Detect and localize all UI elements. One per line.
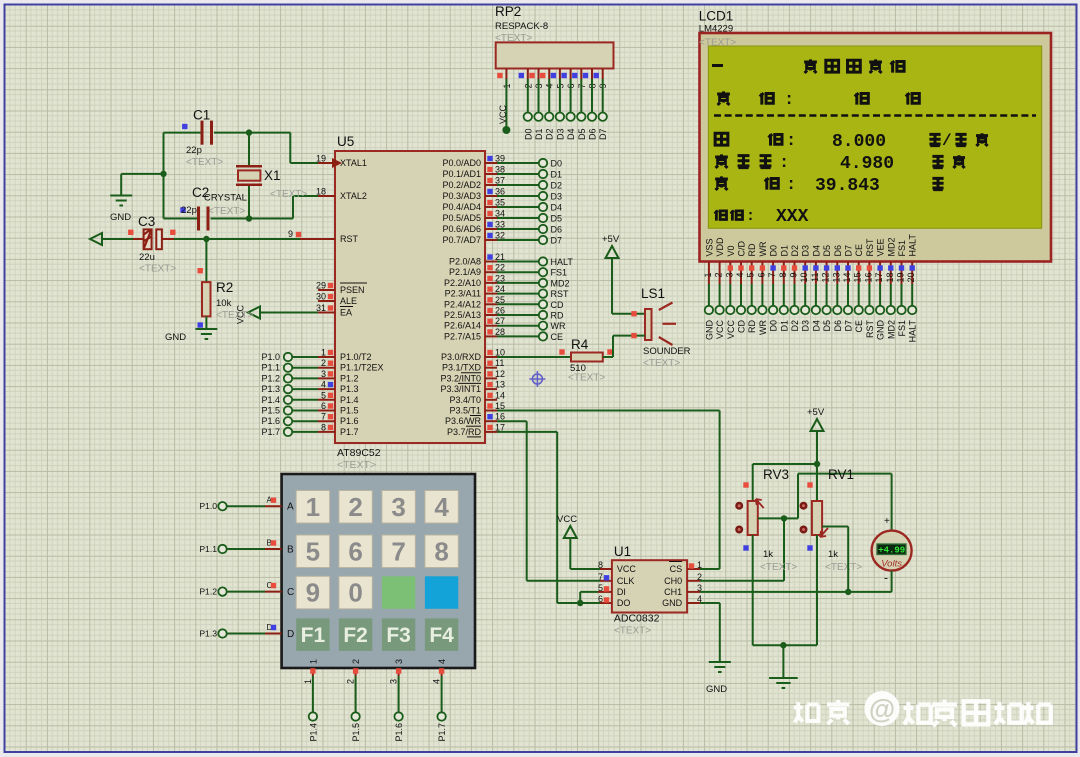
svg-text:D5: D5 (822, 320, 832, 332)
LCD pin 4 C/D to node CD (735, 241, 747, 334)
svg-text:18: 18 (316, 187, 326, 197)
RP2 pin 3 to node D1 (529, 69, 544, 141)
svg-text:-: - (884, 571, 888, 585)
wire RV3 bottom to ground rail (752, 535, 754, 645)
svg-text:V0: V0 (726, 245, 736, 256)
wire C2 row (164, 196, 294, 219)
LCD pin 7 D0 to node D0 (767, 245, 779, 332)
svg-text:<TEXT>: <TEXT> (337, 459, 376, 471)
svg-text:4: 4 (437, 659, 447, 664)
svg-text:8: 8 (598, 560, 603, 570)
keypad button 8 (425, 535, 458, 568)
wire RV3 wiper to voltmeter plus (784, 474, 892, 531)
svg-text:13: 13 (831, 273, 841, 283)
svg-text:P2.2/A10: P2.2/A10 (444, 278, 481, 288)
keypad button 6 (339, 535, 372, 568)
svg-text:C/D: C/D (737, 241, 747, 257)
power VCC arrow for U1 (557, 514, 600, 569)
svg-text:6: 6 (598, 594, 603, 604)
pin 2 P1.1 terminal (261, 358, 335, 373)
pin 32 P0.7 to node D7 (485, 231, 562, 246)
svg-text:VCC: VCC (715, 320, 725, 340)
svg-text:1k: 1k (763, 549, 773, 560)
LCD pin 6 WR to node WR (756, 241, 768, 335)
pin 4 P1.3 terminal (261, 380, 335, 395)
svg-text:8: 8 (434, 536, 448, 566)
pin 3 P1.2 terminal (261, 369, 335, 384)
svg-text:10k: 10k (216, 298, 232, 309)
svg-text:P1.5: P1.5 (351, 723, 361, 742)
svg-text:3: 3 (724, 273, 734, 278)
svg-text:4: 4 (434, 492, 449, 522)
svg-text:16: 16 (863, 273, 873, 283)
RP2 pin 7 to node D5 (572, 69, 587, 141)
U1 pin 5 DI (580, 583, 612, 593)
svg-text:D6: D6 (833, 245, 843, 257)
svg-text:0: 0 (348, 578, 362, 608)
svg-text:F3: F3 (386, 624, 411, 647)
wire C1 row to XTAL1 (164, 133, 291, 163)
svg-text:HALT: HALT (551, 257, 574, 267)
svg-text:+5V: +5V (602, 234, 620, 245)
voltmeter +4.99 Volts (872, 516, 912, 585)
wire left vertical C1 to C2 (163, 133, 165, 219)
svg-text:2: 2 (321, 358, 326, 368)
LCD pin 16 RST to node RST (863, 238, 875, 338)
svg-text:D0: D0 (523, 129, 533, 141)
svg-text:ALE: ALE (340, 296, 357, 306)
svg-text:D5: D5 (551, 214, 563, 224)
keypad button 7 (382, 535, 415, 568)
svg-text:P1.7: P1.7 (340, 427, 359, 437)
svg-text:1: 1 (697, 560, 702, 570)
RP2 pin 2 to node D0 (519, 69, 534, 141)
svg-text:F4: F4 (429, 624, 454, 647)
svg-text:P1.0: P1.0 (261, 352, 280, 362)
svg-text:D5: D5 (577, 129, 587, 141)
svg-text:+5V: +5V (807, 407, 825, 418)
svg-text:8: 8 (321, 422, 326, 432)
svg-text:6: 6 (321, 401, 326, 411)
svg-text:P1.2: P1.2 (261, 373, 280, 383)
svg-text:GND: GND (876, 320, 886, 341)
svg-text:7: 7 (598, 572, 603, 582)
svg-text:D3: D3 (801, 320, 811, 332)
svg-text:4: 4 (432, 679, 442, 684)
RP2 pin 9 to node D7 (594, 69, 609, 141)
LCD pin 1 VSS to node GND (703, 238, 715, 340)
RP2 pin 6 to node D4 (561, 69, 576, 141)
svg-text:XTAL1: XTAL1 (340, 158, 367, 168)
pin 37 P0.2 to node D2 (485, 176, 562, 191)
svg-text:R4: R4 (571, 337, 589, 352)
svg-text:D3: D3 (801, 245, 811, 257)
keypad column 4 terminal P1.7 (432, 659, 448, 742)
U1 pin 2 CH0 wire to RV3 wiper (687, 518, 784, 581)
svg-text:D6: D6 (588, 129, 598, 141)
pin 24 P2.3 to node RST (485, 284, 569, 299)
svg-text:22p: 22p (181, 205, 197, 216)
svg-text:RD: RD (747, 243, 757, 256)
keypad button 0 (339, 576, 372, 609)
svg-text:39.843: 39.843 (815, 176, 880, 196)
RP2 pin 4 to node D2 (540, 69, 555, 141)
capacitor C1 (182, 108, 223, 169)
LCD pin 13 D6 to node D6 (831, 245, 843, 332)
svg-text:P1.6: P1.6 (394, 723, 404, 742)
svg-text:FS1: FS1 (551, 268, 568, 278)
svg-text:CS: CS (670, 564, 683, 574)
wire to GND symbol (121, 174, 163, 195)
svg-text:8: 8 (778, 273, 788, 278)
svg-text:RESPACK-8: RESPACK-8 (495, 21, 548, 32)
pin 16 P3.6 (485, 412, 505, 422)
svg-text:D4: D4 (566, 129, 576, 141)
svg-text:P0.0/AD0: P0.0/AD0 (442, 158, 481, 168)
wire +5V to RV1 top (816, 464, 818, 501)
resistor pack RP2 RESPACK-8 (495, 4, 614, 69)
svg-text:4: 4 (321, 380, 326, 390)
svg-text:13: 13 (495, 380, 505, 390)
svg-text:U5: U5 (337, 134, 354, 149)
RV1 wiper wire to CH1 (822, 527, 848, 592)
svg-text:P1.5: P1.5 (340, 406, 359, 416)
keypad row B terminal P1.1 (199, 539, 294, 556)
LCD pin 9 D2 to node D2 (789, 245, 801, 332)
ground rail below potentiometers (753, 642, 817, 678)
pin 15 P3.5 (485, 401, 505, 411)
svg-text:<TEXT>: <TEXT> (270, 189, 307, 200)
svg-text:CH0: CH0 (664, 576, 682, 586)
wire RV1 bottom to ground rail (816, 535, 818, 645)
LCD dashed separator (714, 114, 1036, 117)
svg-text:GND: GND (704, 320, 714, 341)
keypad button 3 (382, 491, 415, 524)
svg-text:7: 7 (391, 536, 405, 566)
keypad button 5 (296, 535, 329, 568)
wire DI joins DO (577, 592, 583, 606)
svg-text:P3.5/T1: P3.5/T1 (449, 406, 481, 416)
svg-text:P1.1/T2EX: P1.1/T2EX (340, 363, 384, 373)
svg-text:P3.3/INT1: P3.3/INT1 (440, 384, 481, 394)
svg-text:B: B (287, 545, 294, 556)
LCD pin 19 FS1 to node FS1 (896, 240, 908, 337)
svg-text:/: / (942, 132, 952, 150)
svg-text:10: 10 (799, 273, 809, 283)
svg-text:LS1: LS1 (641, 286, 665, 301)
pin 1 P1.0 terminal (261, 348, 335, 363)
LCD screen text line1 title (712, 59, 904, 73)
svg-text:WR: WR (758, 320, 768, 335)
svg-text:D2: D2 (551, 181, 563, 191)
svg-text::: : (784, 91, 794, 110)
svg-text:D1: D1 (534, 129, 544, 141)
svg-text:F1: F1 (301, 624, 326, 647)
LCD pin 18 MD2 to node MD2 (885, 237, 897, 339)
svg-text:XXX: XXX (776, 207, 809, 227)
power +5V above potentiometers (807, 407, 825, 464)
svg-text:P2.4/A12: P2.4/A12 (444, 299, 481, 309)
keypad column 2 terminal P1.5 (346, 659, 362, 742)
svg-text:RST: RST (551, 289, 570, 299)
pin 30 ALE (316, 292, 335, 302)
svg-text:11: 11 (495, 358, 504, 368)
LCD pin 5 RD to node RD (746, 243, 758, 333)
svg-text:9: 9 (789, 273, 799, 278)
svg-text:9: 9 (288, 229, 293, 239)
svg-text:D0: D0 (769, 320, 779, 332)
svg-text::: : (786, 132, 796, 151)
pin 36 P0.3 to node D3 (485, 187, 562, 202)
RP2 pin 1 VCC (497, 69, 512, 135)
svg-text:3: 3 (321, 369, 326, 379)
svg-text:R2: R2 (216, 280, 233, 295)
svg-text:D: D (287, 629, 294, 640)
svg-text:LCD1: LCD1 (699, 9, 734, 24)
node GND branch junction (160, 171, 166, 177)
svg-text:@: @ (869, 694, 895, 724)
svg-text:P1.4: P1.4 (340, 395, 359, 405)
svg-text:P0.5/AD5: P0.5/AD5 (442, 213, 481, 223)
svg-text:D6: D6 (833, 320, 843, 332)
svg-text:+: + (884, 516, 890, 527)
potentiometer RV3 1k (735, 467, 797, 573)
svg-text:CD: CD (551, 300, 564, 310)
keypad row A terminal P1.0 (199, 496, 294, 513)
potentiometer RV1 1k (800, 467, 863, 573)
svg-text:<TEXT>: <TEXT> (760, 562, 797, 573)
keypad blue button (425, 576, 458, 609)
svg-text:<TEXT>: <TEXT> (643, 358, 680, 369)
svg-text:D6: D6 (551, 225, 563, 235)
svg-text:19: 19 (316, 154, 326, 164)
sounder LS1 (641, 286, 691, 369)
LCD pin 11 D4 to node D4 (810, 245, 822, 332)
svg-text:RD: RD (551, 311, 564, 321)
resistor R2 10k (198, 239, 254, 329)
svg-text:P0.3/AD3: P0.3/AD3 (442, 191, 481, 201)
svg-text:14: 14 (842, 273, 852, 283)
svg-text:VCC: VCC (498, 104, 508, 124)
svg-text:14: 14 (495, 390, 505, 400)
svg-text:P1.4: P1.4 (261, 395, 280, 405)
power +5V near sounder (602, 234, 620, 314)
svg-text:P0.1/AD1: P0.1/AD1 (442, 169, 481, 179)
svg-text::: : (786, 176, 796, 195)
RP2 pin 5 to node D3 (551, 69, 566, 141)
input arrow terminal RST row (90, 233, 144, 245)
svg-text:P3.4/T0: P3.4/T0 (449, 395, 481, 405)
keypad body (282, 474, 475, 668)
svg-text:CE: CE (854, 244, 864, 257)
ground symbol below rail (769, 678, 798, 688)
pin 39 P0.0 to node D0 (485, 154, 562, 169)
wire P3.6/WR to U1 CLK (497, 421, 600, 581)
U1 pin 3 CH1 wire to RV1 wiper and meter (687, 583, 892, 595)
svg-text:9: 9 (306, 578, 320, 608)
svg-text:6: 6 (756, 273, 766, 278)
RV3 wiper wire to CH0 (758, 515, 787, 521)
wire X1 branch (248, 133, 250, 219)
svg-text:FS1: FS1 (897, 320, 907, 337)
svg-text:D1: D1 (779, 245, 789, 257)
svg-text:RV3: RV3 (763, 467, 789, 482)
svg-text:P3.7/RD: P3.7/RD (447, 427, 482, 437)
svg-text:VCC: VCC (726, 320, 736, 340)
svg-text:D2: D2 (545, 129, 555, 141)
svg-text:<TEXT>: <TEXT> (139, 264, 176, 275)
svg-text:VEE: VEE (876, 238, 886, 256)
svg-text:P1.6: P1.6 (340, 416, 359, 426)
pin 18 XTAL2 (293, 187, 335, 197)
pin 8 P1.7 terminal (261, 422, 335, 437)
LCD screen text line4 weight (715, 154, 965, 174)
svg-text:29: 29 (316, 281, 326, 291)
svg-text:P1.1: P1.1 (261, 363, 280, 373)
svg-text:<TEXT>: <TEXT> (186, 157, 223, 168)
svg-text:P1.3: P1.3 (261, 384, 280, 394)
svg-text:D7: D7 (844, 245, 854, 257)
svg-text::: : (746, 208, 755, 225)
wire C3 to RST (162, 238, 300, 240)
pin 19 XTAL1 (290, 154, 342, 169)
svg-text:1k: 1k (828, 549, 838, 560)
ground below U1 (706, 662, 731, 695)
svg-text:AT89C52: AT89C52 (337, 447, 381, 459)
pin 13 P3.3 (485, 380, 505, 390)
LCD pin 2 VDD to node VCC (714, 237, 726, 339)
svg-text:CRYSTAL: CRYSTAL (204, 193, 247, 204)
svg-text:P2.6/A14: P2.6/A14 (444, 321, 481, 331)
svg-text:D4: D4 (811, 320, 821, 332)
pin 25 P2.4 to node CD (485, 295, 564, 310)
svg-text:P1.2: P1.2 (199, 587, 217, 597)
pin 33 P0.6 to node D6 (485, 220, 562, 235)
svg-text:12: 12 (495, 369, 505, 379)
svg-text:D0: D0 (769, 245, 779, 257)
keypad row D terminal P1.3 (199, 623, 294, 640)
svg-text:DO: DO (617, 598, 631, 608)
keypad button F3 (382, 618, 415, 651)
svg-text:1: 1 (703, 273, 713, 278)
svg-text:MD2: MD2 (551, 278, 570, 288)
pin 5 P1.4 terminal (261, 390, 335, 405)
svg-text:RP2: RP2 (495, 4, 521, 19)
watermark zhihu logo and text (794, 691, 1051, 726)
svg-text:3: 3 (394, 659, 404, 664)
keypad green button (382, 576, 415, 609)
LCD screen text line2 name (717, 91, 919, 110)
svg-text:P3.0/RXD: P3.0/RXD (441, 352, 482, 362)
svg-text:P0.7/AD7: P0.7/AD7 (442, 235, 481, 245)
svg-text:12: 12 (821, 273, 831, 283)
svg-text:15: 15 (853, 273, 863, 283)
svg-text:X1: X1 (264, 168, 281, 183)
svg-text:VCC: VCC (557, 514, 577, 525)
svg-text:P1.3: P1.3 (199, 629, 217, 639)
resistor R4 510 (497, 337, 613, 384)
svg-text:GND: GND (165, 332, 186, 343)
svg-text:P1.0/T2: P1.0/T2 (340, 352, 372, 362)
svg-text:<TEXT>: <TEXT> (216, 310, 253, 321)
wire P3.5/T1 to U1 CS (497, 411, 720, 570)
pin 11 P3.1 (485, 358, 504, 368)
pin 6 P1.5 terminal (261, 401, 335, 416)
svg-text:D1: D1 (779, 320, 789, 332)
adc U1 ADC0832 body (612, 544, 687, 637)
svg-text:D4: D4 (551, 203, 563, 213)
svg-text:MD2: MD2 (886, 320, 896, 339)
svg-text:SOUNDER: SOUNDER (643, 346, 691, 357)
svg-text:D3: D3 (555, 129, 565, 141)
U1 pin 8 VCC (598, 560, 612, 570)
LCD pin 17 VEE to node GND (874, 238, 886, 340)
svg-text:CD: CD (737, 320, 747, 333)
svg-text:RST: RST (865, 238, 875, 257)
svg-text:P1.4: P1.4 (308, 723, 318, 742)
svg-text:5: 5 (321, 390, 326, 400)
wire P3.7/RD to U1 DO (497, 432, 600, 603)
keypad button 1 (296, 491, 329, 524)
svg-text:P1.2: P1.2 (340, 373, 359, 383)
svg-text:<TEXT>: <TEXT> (208, 206, 245, 217)
node +5V rail split (814, 461, 820, 467)
svg-text:D1: D1 (551, 170, 563, 180)
svg-text:MD2: MD2 (886, 237, 896, 256)
svg-text:P1.7: P1.7 (261, 427, 280, 437)
svg-text:P0.2/AD2: P0.2/AD2 (442, 180, 481, 190)
U1 pin 7 CLK (598, 572, 612, 582)
svg-text:CE: CE (854, 320, 864, 333)
svg-text:P0.6/AD6: P0.6/AD6 (442, 224, 481, 234)
LCD pin 3 V0 to node VCC (724, 245, 736, 339)
capacitor C3 22u polarized (128, 214, 176, 275)
svg-text:2: 2 (714, 273, 724, 278)
LCD pin 12 D5 to node D5 (821, 245, 833, 332)
node at X1 bottom / C2 row (246, 215, 252, 221)
svg-text:8.000: 8.000 (832, 132, 886, 152)
svg-text:19: 19 (896, 273, 906, 283)
svg-text:D0: D0 (551, 159, 563, 169)
svg-text:4: 4 (735, 273, 745, 278)
pin 12 P3.2 (485, 369, 505, 379)
svg-text:P3.6/WR: P3.6/WR (445, 416, 482, 426)
svg-text:22u: 22u (139, 252, 155, 263)
svg-text:VCC: VCC (617, 564, 637, 574)
keypad column 3 terminal P1.6 (389, 659, 405, 742)
pin 22 P2.1 to node FS1 (485, 263, 567, 278)
pin 17 P3.7 (485, 422, 505, 432)
keypad button F4 (425, 618, 458, 651)
pin 10 P3.0 (485, 348, 505, 358)
keypad button F1 (296, 618, 329, 651)
svg-text:CH1: CH1 (664, 587, 682, 597)
LCD pin 8 D1 to node D1 (778, 245, 790, 332)
pin 29 PSEN (316, 281, 335, 291)
svg-text:ADC0832: ADC0832 (614, 613, 660, 625)
svg-text:1: 1 (308, 659, 318, 664)
LCD screen text line5 total price (715, 176, 943, 196)
svg-text:XTAL2: XTAL2 (340, 191, 367, 201)
svg-text:CE: CE (551, 332, 564, 342)
svg-text:1: 1 (303, 679, 313, 684)
svg-text:P2.5/A13: P2.5/A13 (444, 310, 481, 320)
svg-text:P1.0: P1.0 (199, 501, 217, 511)
svg-text:P1.1: P1.1 (199, 544, 217, 554)
svg-text:DI: DI (617, 587, 626, 597)
LCD pin 14 D7 to node D7 (842, 245, 854, 332)
svg-text:GND: GND (706, 684, 727, 695)
